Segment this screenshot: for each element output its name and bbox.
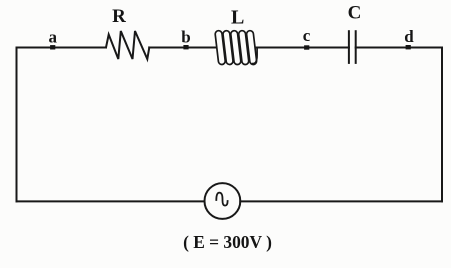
svg-text:( E = 300V ): ( E = 300V )	[183, 232, 272, 252]
svg-text:a: a	[48, 27, 57, 46]
svg-text:b: b	[181, 28, 190, 47]
svg-text:L: L	[231, 7, 244, 29]
svg-text:C: C	[348, 3, 362, 24]
svg-text:R: R	[112, 6, 126, 27]
svg-text:c: c	[303, 26, 311, 45]
svg-text:d: d	[404, 27, 414, 46]
